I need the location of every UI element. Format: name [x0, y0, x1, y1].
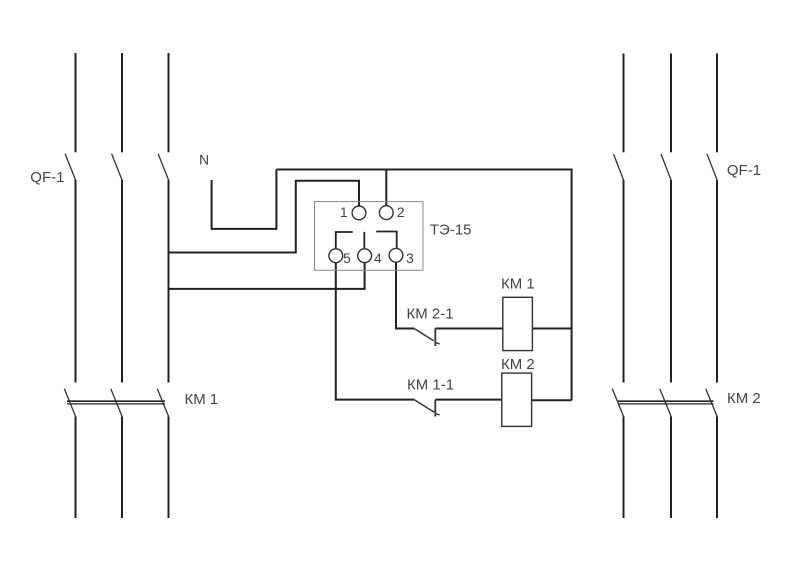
svg-text:5: 5 — [343, 250, 351, 266]
svg-text:КМ 2-1: КМ 2-1 — [407, 305, 454, 322]
svg-text:2: 2 — [397, 204, 405, 220]
svg-text:4: 4 — [374, 250, 382, 266]
svg-text:ТЭ-15: ТЭ-15 — [430, 222, 472, 239]
svg-text:КМ 1: КМ 1 — [501, 276, 535, 293]
svg-text:КМ 2: КМ 2 — [501, 356, 535, 373]
svg-text:КМ 2: КМ 2 — [727, 390, 761, 407]
svg-text:QF-1: QF-1 — [727, 162, 761, 179]
svg-text:3: 3 — [406, 250, 414, 266]
svg-text:КМ 1: КМ 1 — [185, 391, 219, 408]
svg-text:QF-1: QF-1 — [30, 169, 64, 186]
svg-text:КМ 1-1: КМ 1-1 — [407, 376, 454, 393]
svg-text:1: 1 — [340, 204, 348, 220]
svg-text:N: N — [199, 152, 209, 168]
